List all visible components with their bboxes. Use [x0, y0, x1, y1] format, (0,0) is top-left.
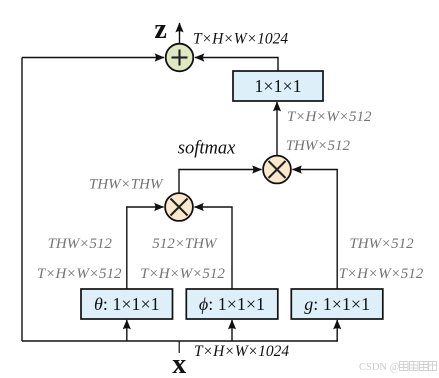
wire: 1x1x1 conv output to adder: [195, 58, 278, 72]
wire: g branch up and left into right multiplier: [293, 170, 338, 290]
wire: stub from bus down to x label: [178, 341, 180, 353]
svg-text:512×THW: 512×THW: [152, 236, 218, 252]
svg-text:g: 1×1×1: g: 1×1×1: [304, 294, 370, 314]
svg-text:T×H×W×1024: T×H×W×1024: [193, 31, 288, 48]
svg-text:THW×512: THW×512: [349, 236, 414, 252]
conv box phi 1x1x1: [186, 289, 277, 319]
wire: adder output up to z: [179, 23, 181, 43]
wire: bus arrow up into phi box: [231, 320, 233, 341]
wire: bus arrow up into theta box: [126, 320, 128, 341]
wire: left multiplier through softmax into right multiplier: [179, 170, 262, 193]
svg-text:T×H×W×512: T×H×W×512: [339, 266, 424, 282]
right multiplier circle (matmul node): [263, 156, 291, 184]
conv box theta 1x1x1: [81, 289, 173, 319]
wire: residual into adder left: [22, 57, 164, 59]
svg-text:T×H×W×512: T×H×W×512: [140, 266, 225, 282]
svg-text:ϕ: 1×1×1: ϕ: 1×1×1: [199, 294, 265, 314]
conv box 1x1x1: [233, 71, 323, 101]
svg-text:T×H×W×512: T×H×W×512: [287, 109, 372, 125]
svg-text:T×H×W×1024: T×H×W×1024: [194, 343, 289, 360]
watermark glyph blocks: [400, 362, 437, 371]
wire: right multiplier up into 1x1x1 conv: [276, 102, 278, 155]
svg-text:CSDN @: CSDN @: [359, 362, 400, 373]
wire: phi branch up and left into left multiplier: [195, 207, 233, 289]
svg-text:θ: 1×1×1: θ: 1×1×1: [94, 294, 160, 314]
wire: bottom horizontal bus from x: [22, 340, 338, 342]
svg-text:z: z: [154, 14, 166, 45]
conv box g 1x1x1: [291, 289, 383, 319]
adder circle (plus node): [166, 44, 194, 72]
svg-text:1×1×1: 1×1×1: [254, 76, 301, 96]
wire: theta branch up and right into left multiplier: [127, 207, 164, 289]
svg-text:T×H×W×512: T×H×W×512: [37, 266, 122, 282]
svg-text:THW×THW: THW×THW: [89, 177, 164, 193]
svg-text:THW×512: THW×512: [286, 138, 351, 154]
wire: bus arrow up into g box: [336, 320, 338, 341]
svg-text:THW×512: THW×512: [48, 236, 113, 252]
left multiplier circle (matmul node): [165, 193, 193, 221]
wire: residual left vertical from x-line up: [21, 58, 23, 342]
svg-text:softmax: softmax: [178, 139, 236, 159]
svg-text:x: x: [172, 349, 186, 378]
